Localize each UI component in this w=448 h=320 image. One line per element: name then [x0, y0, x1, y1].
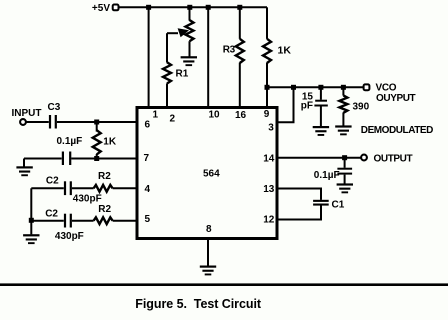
svg-text:C2: C2 [46, 176, 59, 187]
wire rail corner to 1K [266, 7, 268, 39]
wire pin 5 row [31, 220, 64, 222]
svg-text:DEMODULATED: DEMODULATED [361, 125, 433, 136]
capacitor 15pF plate top [315, 100, 327, 102]
node junction rail-pin1 [146, 5, 151, 10]
svg-text:390: 390 [353, 102, 370, 113]
svg-text:14: 14 [263, 154, 275, 165]
svg-text:6: 6 [145, 119, 151, 130]
wire C2a to R2a [72, 187, 94, 189]
svg-text:9: 9 [264, 109, 270, 120]
capacitor C2b plate left [64, 214, 66, 228]
capacitor C1 plate bottom [313, 204, 329, 206]
resistor R1 [163, 62, 171, 83]
svg-text:4: 4 [145, 184, 151, 195]
wire pin 4 row [31, 187, 64, 189]
svg-text:1: 1 [153, 110, 159, 121]
ground C2 rows [23, 234, 39, 244]
svg-text:0.1µF: 0.1µF [314, 170, 340, 181]
wire pin 3 up to VCO line [279, 87, 294, 122]
svg-text:430pF: 430pF [55, 231, 84, 242]
svg-text:12: 12 [263, 214, 275, 225]
terminal +5V [113, 5, 119, 11]
svg-text:VCO: VCO [376, 82, 397, 93]
wire 0.1uF right stub [344, 158, 346, 168]
svg-text:5: 5 [145, 214, 151, 225]
svg-text:C3: C3 [48, 102, 61, 113]
wire pin 1 [148, 7, 150, 106]
node junction 0.1uF right [342, 155, 347, 160]
resistor R3 [236, 39, 244, 63]
wire pot top [189, 7, 191, 20]
terminal VCO output [364, 84, 370, 90]
wire pin 8 to ground [207, 240, 209, 266]
svg-text:R2: R2 [98, 204, 111, 215]
svg-text:7: 7 [144, 153, 150, 164]
ground 0.1uF right [337, 183, 353, 193]
wire C3 to pin 6 [57, 121, 136, 123]
op-amp U1 IC 564 box [137, 108, 277, 239]
capacitor 0.1uF left plate left [62, 152, 64, 166]
svg-text:10: 10 [209, 110, 221, 121]
wire pin 12 loop [279, 206, 322, 220]
svg-text:430pF: 430pF [73, 193, 102, 204]
wire INPUT to C3 [26, 121, 49, 123]
svg-text:13: 13 [263, 184, 275, 195]
svg-text:R1: R1 [176, 68, 189, 79]
node junction 390 [341, 85, 346, 90]
svg-text:R3: R3 [223, 45, 236, 56]
ground 390 [335, 125, 351, 135]
svg-text:564: 564 [203, 169, 220, 180]
node junction VCO tee [265, 85, 270, 90]
wire wiper to R1 [166, 33, 168, 62]
svg-text:8: 8 [206, 224, 212, 235]
svg-text:INPUT: INPUT [12, 108, 42, 119]
resistor 390 [339, 95, 347, 112]
node junction C2 ground [29, 218, 34, 223]
svg-text:OUYPUT: OUYPUT [376, 93, 416, 104]
svg-text:Figure 5. Test Circuit: Figure 5. Test Circuit [135, 297, 262, 311]
terminal OUTPUT [361, 155, 367, 161]
svg-text:2: 2 [170, 113, 176, 124]
wire 1K to pin 9 [266, 63, 268, 106]
capacitor C3 plate left [49, 115, 51, 129]
resistor R2b [94, 217, 113, 224]
capacitor C2b plate right [70, 214, 72, 228]
resistor 1K left [93, 130, 101, 154]
wire 0.1uF right to ground [344, 175, 346, 184]
wire ground stub pin7 [23, 159, 25, 167]
capacitor 0.1uF right plate top [337, 168, 352, 170]
wire pin 7 row [24, 158, 62, 160]
wire 1K bottom stub [96, 154, 98, 159]
potentiometer body [186, 20, 194, 41]
wire R3 to pin 16 [239, 63, 241, 106]
capacitor 15pF plate bottom [314, 105, 327, 107]
ground pin 8 [200, 266, 216, 276]
ground pin7 row [16, 166, 32, 176]
wire VCO line [267, 86, 363, 88]
potentiometer arrowhead [178, 28, 189, 37]
capacitor C2a plate left [64, 181, 66, 195]
wire pin 7 row right [71, 158, 135, 160]
svg-text:16: 16 [235, 110, 247, 121]
svg-text:R2: R2 [98, 171, 111, 182]
svg-text:1K: 1K [278, 45, 292, 57]
node junction rail-pot [187, 5, 192, 10]
node junction 1K left bottom [94, 156, 99, 161]
svg-text:OUTPUT: OUTPUT [374, 153, 413, 164]
capacitor C2a plate right [70, 181, 72, 195]
wire 15pF to ground [320, 107, 322, 127]
wire pin 13 loop [279, 189, 322, 200]
capacitor C3 plate right [55, 115, 57, 129]
capacitor C1 plate top [313, 200, 329, 202]
caption rule [0, 283, 448, 286]
svg-text:C2: C2 [45, 208, 58, 219]
resistor R2a [94, 185, 113, 192]
wire 390 to ground [342, 112, 344, 125]
wire R2b to pin 5 [113, 220, 136, 222]
ground pot [181, 56, 197, 66]
wire +5V rail [119, 6, 267, 8]
capacitor 0.1uF right plate bottom [337, 173, 352, 175]
wire pin 14 row [279, 157, 362, 159]
wire C2b to R2b [72, 220, 94, 222]
potentiometer wiper arrow [167, 32, 178, 34]
wire rail to 390 [342, 87, 344, 95]
wire R2a to pin 4 [113, 187, 136, 189]
wire 15pF stub [320, 87, 322, 100]
wire pin 4 row left vertical [30, 188, 32, 220]
node junction rail-pin10 [206, 5, 211, 10]
wire pin 10 [207, 7, 209, 106]
svg-text:+5V: +5V [92, 3, 110, 14]
wire rail to R3 [239, 7, 241, 39]
ground 15pF [313, 126, 329, 136]
wire 1K top stub [96, 122, 98, 132]
resistor 1K top [263, 39, 271, 63]
node junction 1K left top [94, 120, 99, 125]
wire R1 to pin 2 [166, 83, 168, 106]
capacitor 0.1uF left plate right [69, 152, 71, 166]
svg-text:1K: 1K [103, 136, 117, 147]
wire ground stub pin5 [30, 221, 32, 235]
svg-text:3: 3 [268, 123, 274, 134]
node junction 15pF [318, 85, 323, 90]
node junction pin3-VCO [291, 85, 296, 90]
terminal INPUT [20, 119, 26, 125]
svg-text:0.1µF: 0.1µF [57, 136, 83, 147]
svg-text:pF: pF [301, 100, 313, 111]
node junction rail-R3 [237, 5, 242, 10]
svg-text:C1: C1 [332, 200, 345, 211]
wire pot bottom [189, 41, 191, 56]
